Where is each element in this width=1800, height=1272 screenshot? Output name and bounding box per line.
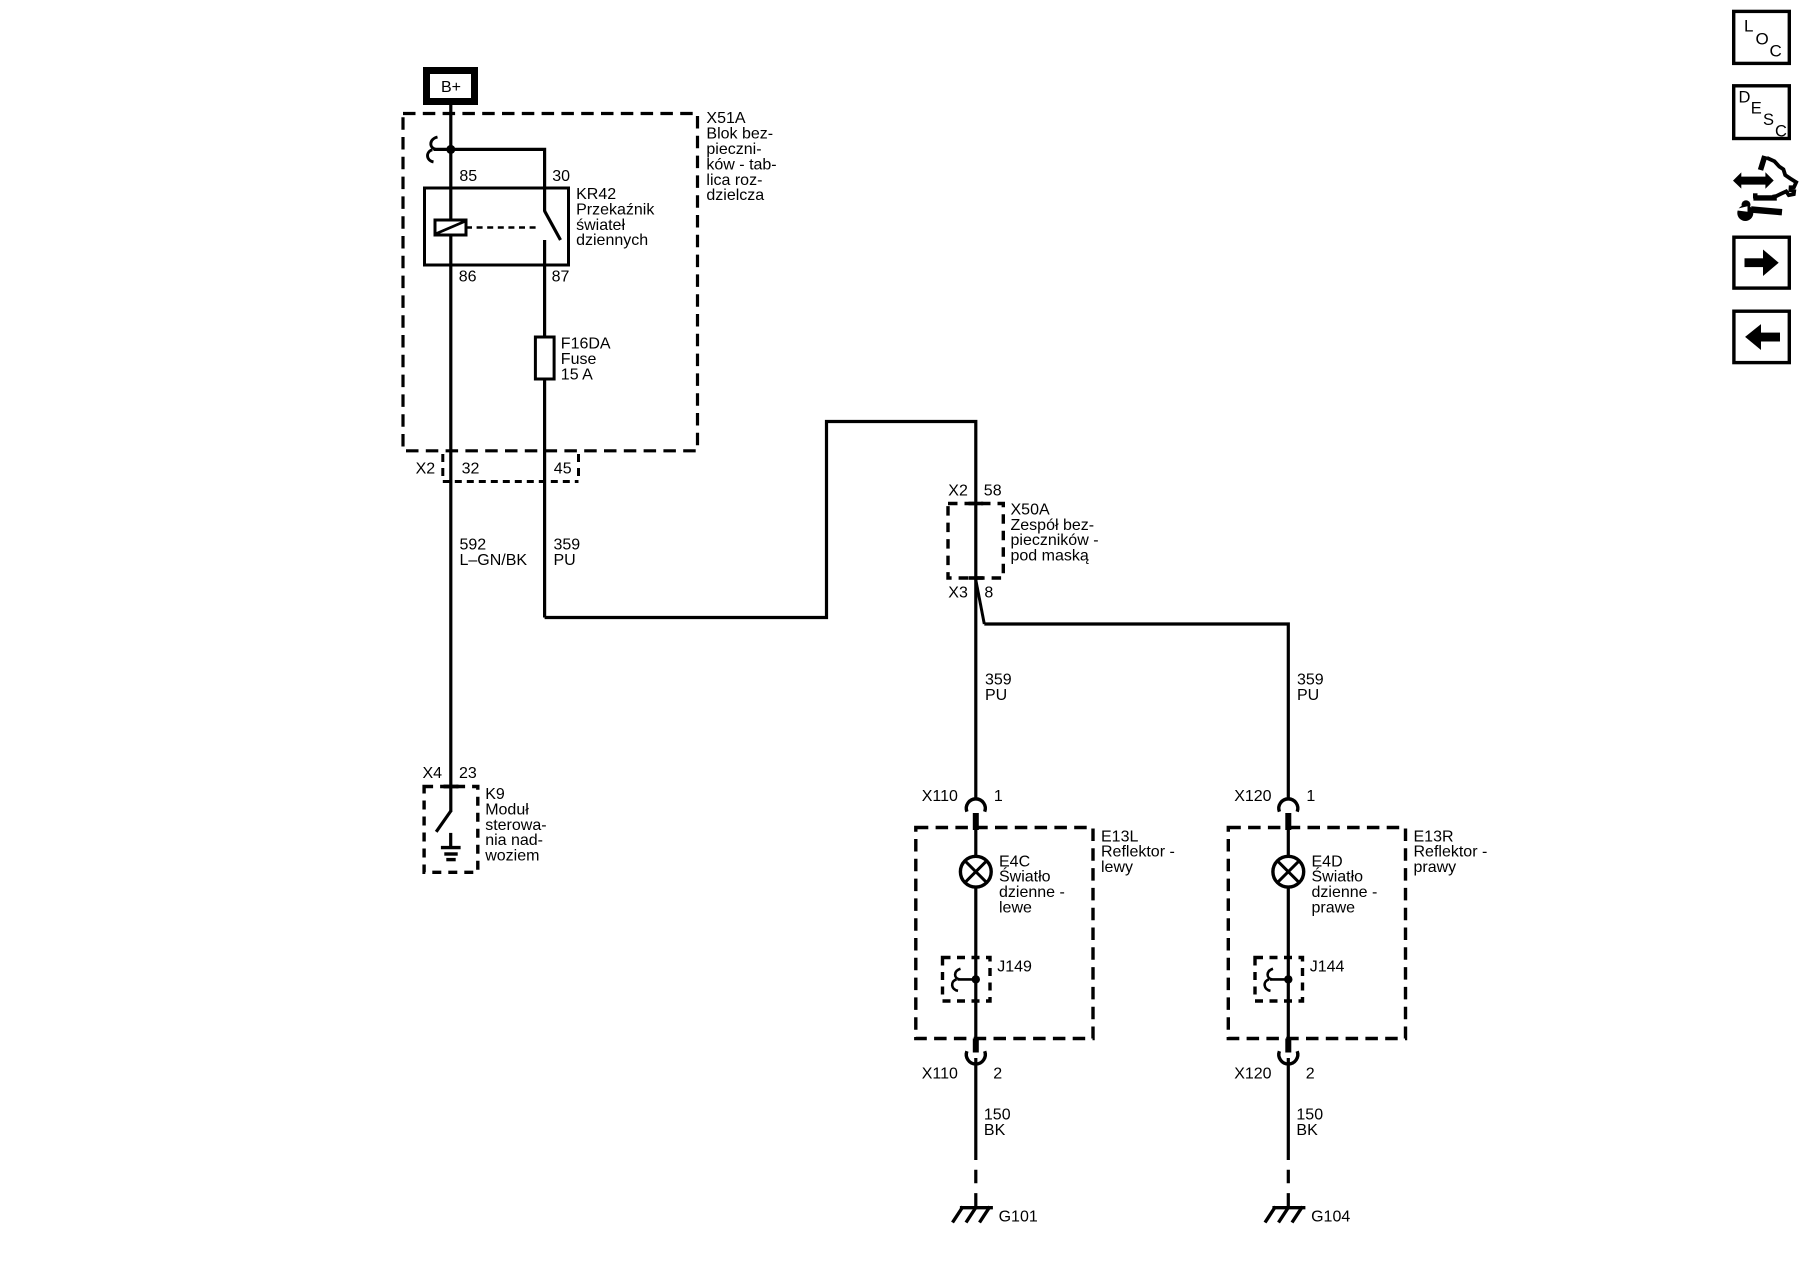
svg-text:32: 32 bbox=[462, 461, 480, 478]
svg-text:J144: J144 bbox=[1310, 959, 1345, 976]
svg-text:58: 58 bbox=[984, 483, 1002, 500]
svg-text:X2: X2 bbox=[416, 461, 436, 478]
wire: 359 run from X2-45 to X50A X2-58 bbox=[545, 422, 976, 618]
svg-text:B+: B+ bbox=[441, 79, 461, 96]
label E4C bbox=[999, 853, 1065, 916]
svg-text:woziem: woziem bbox=[484, 848, 539, 865]
K9 dashed box bbox=[424, 787, 478, 873]
label E4D bbox=[1312, 853, 1378, 916]
relay coil bbox=[435, 220, 466, 235]
svg-text:prawy: prawy bbox=[1414, 859, 1457, 876]
K9 internal switch blade bbox=[436, 811, 451, 832]
K9 internal ground symbol bbox=[441, 833, 461, 860]
wire label 592 L-GN/BK bbox=[460, 537, 528, 569]
lamp E4D bbox=[1273, 856, 1304, 887]
relay fixed contact pin 87 bbox=[543, 240, 546, 265]
svg-text:2: 2 bbox=[993, 1065, 1002, 1082]
svg-text:S: S bbox=[1763, 111, 1774, 129]
svg-text:X120: X120 bbox=[1234, 788, 1271, 805]
splice J149 symbol bbox=[952, 969, 980, 991]
svg-text:Światło: Światło bbox=[999, 867, 1051, 886]
svg-text:1: 1 bbox=[994, 788, 1003, 805]
svg-text:BK: BK bbox=[984, 1122, 1006, 1139]
lamp E4C bbox=[960, 856, 991, 887]
battery feed B+ bbox=[427, 71, 475, 102]
svg-text:1: 1 bbox=[1306, 788, 1315, 805]
svg-text:85: 85 bbox=[459, 168, 477, 185]
wire label 359 PU (left branch) bbox=[985, 672, 1012, 704]
svg-text:lewy: lewy bbox=[1101, 859, 1133, 876]
label X50A Zespół bezpieczników - pod maską bbox=[1011, 501, 1099, 564]
wire: pin 1 to lamp E4D bbox=[1287, 830, 1290, 856]
svg-text:PU: PU bbox=[985, 687, 1007, 704]
wire: branch to right headlamp bbox=[984, 624, 1288, 800]
headlamp E13L dashed box bbox=[916, 828, 1093, 1039]
wire: pin 1 to lamp E4C bbox=[974, 830, 977, 856]
label X51A Blok bezpieczników - tablica rozdzielcza bbox=[706, 110, 776, 204]
svg-text:G101: G101 bbox=[999, 1209, 1038, 1226]
svg-text:L: L bbox=[1744, 17, 1753, 36]
svg-text:G104: G104 bbox=[1311, 1209, 1350, 1226]
junction node bbox=[446, 145, 455, 154]
svg-text:87: 87 bbox=[552, 269, 570, 286]
svg-text:O: O bbox=[1756, 30, 1769, 49]
relay control dashed link bbox=[466, 226, 540, 229]
fuse block X51A dashed box bbox=[403, 114, 698, 451]
ground G104 bbox=[1265, 1207, 1305, 1223]
svg-text:86: 86 bbox=[459, 269, 477, 286]
wire: fuse to connector X2 pin 45 (circuit 359) bbox=[543, 379, 546, 618]
splice J149 dashed box bbox=[943, 958, 991, 1002]
svg-text:D: D bbox=[1739, 89, 1751, 107]
label E13R bbox=[1414, 828, 1488, 876]
svg-text:dzielcza: dzielcza bbox=[706, 187, 764, 204]
svg-text:E: E bbox=[1751, 100, 1762, 118]
svg-text:C: C bbox=[1770, 42, 1782, 61]
wire: X50A X3-8 down to left headlamp bbox=[974, 580, 977, 800]
svg-text:45: 45 bbox=[554, 461, 572, 478]
wire: pin 2 to ground (circuit 150 BK) bbox=[974, 1058, 977, 1147]
splice J144 symbol bbox=[1265, 969, 1293, 991]
fuse F16DA bbox=[535, 337, 554, 379]
nav icon arrow left bbox=[1734, 311, 1789, 362]
wire label 359 PU (right branch) bbox=[1297, 672, 1324, 704]
dashed ground lead bbox=[974, 1147, 977, 1207]
svg-text:X120: X120 bbox=[1234, 1065, 1271, 1082]
wire: junction to relay pin 30 bbox=[434, 149, 545, 211]
label F16DA Fuse 15 A bbox=[561, 336, 611, 384]
svg-text:2: 2 bbox=[1306, 1065, 1315, 1082]
tick X50A bottom pin bbox=[969, 576, 984, 580]
wire: branch diagonal at X3-8 bbox=[976, 580, 985, 624]
nav icon: connector repair tool bbox=[1733, 156, 1797, 221]
dashed ground lead bbox=[1287, 1147, 1290, 1207]
label E13L bbox=[1101, 828, 1175, 876]
svg-text:X2: X2 bbox=[948, 483, 968, 500]
wire: lamp to J149 and pin 2 bbox=[974, 887, 977, 1040]
wire: pin 2 to ground (circuit 150 BK) bbox=[1287, 1058, 1290, 1147]
svg-text:prawe: prawe bbox=[1312, 900, 1356, 917]
connector X120 pin 1 bbox=[1234, 788, 1315, 830]
relay switch blade (pin 30 to 87) bbox=[545, 211, 561, 240]
tick X50A top pin bbox=[969, 502, 984, 506]
nav icon LOC bbox=[1734, 11, 1790, 63]
wire: lamp to J144 and pin 2 bbox=[1287, 887, 1290, 1040]
svg-text:8: 8 bbox=[984, 584, 993, 601]
svg-text:lewe: lewe bbox=[999, 900, 1032, 917]
wire: relay 87 to fuse bbox=[543, 265, 546, 337]
underhood fuse block X50A dashed box bbox=[948, 504, 1003, 579]
wire: B+ down through fuse block to K9 (circuit 592) bbox=[449, 105, 452, 812]
svg-text:pod maską: pod maską bbox=[1011, 548, 1089, 565]
nav icon arrow right bbox=[1734, 237, 1789, 288]
svg-text:X110: X110 bbox=[922, 1065, 958, 1082]
svg-text:J149: J149 bbox=[997, 959, 1032, 976]
svg-text:23: 23 bbox=[459, 765, 477, 782]
wire label 150 BK bbox=[1296, 1107, 1323, 1139]
wire label 359 PU bbox=[554, 537, 581, 569]
ground G101 bbox=[953, 1207, 993, 1223]
label K9 Moduł sterowania nadwoziem bbox=[484, 786, 546, 865]
headlamp E13R dashed box bbox=[1228, 828, 1405, 1039]
svg-text:Światło: Światło bbox=[1312, 867, 1364, 886]
svg-text:15 A: 15 A bbox=[561, 366, 593, 383]
svg-text:BK: BK bbox=[1296, 1122, 1318, 1139]
relay KR42 box bbox=[425, 188, 569, 265]
tick X4-23 pin bbox=[444, 785, 459, 789]
hook: circuit continues symbol at junction bbox=[428, 137, 438, 162]
svg-text:PU: PU bbox=[1297, 687, 1319, 704]
svg-text:C: C bbox=[1775, 122, 1787, 140]
svg-text:L–GN/BK: L–GN/BK bbox=[460, 552, 528, 569]
svg-text:X4: X4 bbox=[423, 765, 443, 782]
nav icon DESC bbox=[1734, 86, 1790, 141]
connector X110 pin 2 bbox=[922, 1039, 1003, 1083]
connector X2 of fuse block: dashed strip bbox=[443, 454, 579, 482]
svg-text:30: 30 bbox=[552, 168, 570, 185]
svg-text:PU: PU bbox=[554, 552, 576, 569]
connector X110 pin 1 bbox=[922, 788, 1003, 830]
svg-text:X110: X110 bbox=[922, 788, 958, 805]
splice J144 dashed box bbox=[1255, 958, 1303, 1002]
wire label 150 BK bbox=[984, 1107, 1011, 1139]
label KR42 Przekaźnik świateł dziennych bbox=[576, 186, 655, 249]
svg-text:dziennych: dziennych bbox=[576, 232, 648, 249]
connector X120 pin 2 bbox=[1234, 1039, 1315, 1083]
svg-text:X3: X3 bbox=[948, 584, 968, 601]
